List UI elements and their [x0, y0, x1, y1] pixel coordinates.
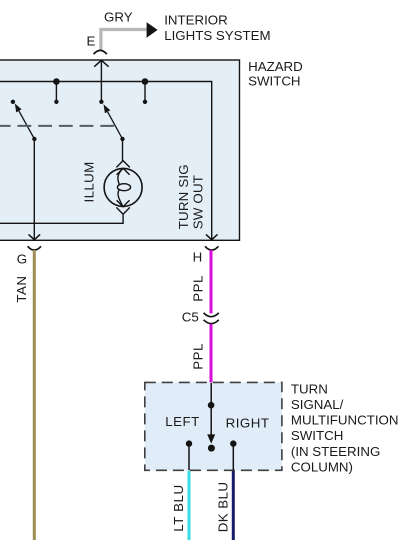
svg-text:SWITCH: SWITCH — [248, 74, 300, 89]
svg-text:SW OUT: SW OUT — [191, 175, 206, 229]
turn signal/multifunction switch box — [145, 382, 282, 470]
arrow down at G inside box — [29, 234, 41, 239]
switch blade left — [19, 111, 35, 139]
svg-text:TURN: TURN — [291, 381, 328, 396]
left contact dot and stub — [186, 440, 192, 446]
stub wire — [55, 82, 57, 102]
contact dots — [11, 100, 15, 104]
svg-text:ILLUM: ILLUM — [81, 161, 96, 202]
svg-text:SIGNAL/: SIGNAL/ — [291, 397, 344, 412]
connector E arc — [94, 50, 107, 54]
svg-text:LEFT: LEFT — [165, 414, 200, 429]
bus wire with turn sig sw out drop — [0, 82, 212, 240]
svg-text:PPL: PPL — [190, 343, 205, 370]
wire GRY to interior lights — [101, 30, 147, 52]
stub wire — [144, 82, 146, 102]
svg-text:HAZARD: HAZARD — [248, 59, 303, 74]
common contact dot — [208, 445, 215, 452]
wire to G — [33, 139, 35, 239]
svg-text:LT BLU: LT BLU — [171, 484, 186, 531]
svg-text:C5: C5 — [182, 310, 199, 325]
svg-text:H: H — [193, 250, 203, 265]
svg-text:GRY: GRY — [104, 10, 133, 25]
pole wire inside multifunction switch — [210, 383, 212, 435]
connector H arc — [205, 246, 218, 250]
svg-text:PPL: PPL — [190, 275, 205, 302]
wire from center blade to lamp — [122, 139, 124, 161]
svg-text:(IN STEERING: (IN STEERING — [291, 444, 380, 459]
wire LT BLU — [188, 471, 191, 540]
wire PPL upper — [210, 250, 213, 313]
svg-text:MULTIFUNCTION: MULTIFUNCTION — [291, 413, 399, 428]
junction dot on bus — [53, 78, 60, 85]
lamp ILLUM — [104, 168, 142, 206]
junction dot on bus — [142, 78, 149, 85]
arrow up at E inside box — [94, 60, 108, 66]
svg-text:E: E — [87, 34, 96, 49]
svg-text:COLUMN): COLUMN) — [291, 459, 353, 474]
svg-text:TAN: TAN — [14, 275, 29, 302]
mechanical link dashed line — [0, 125, 114, 127]
wire TAN — [33, 250, 36, 540]
junction dot — [208, 402, 215, 409]
svg-text:SWITCH: SWITCH — [291, 428, 343, 443]
svg-text:INTERIOR: INTERIOR — [164, 13, 228, 28]
svg-text:RIGHT: RIGHT — [226, 416, 270, 431]
arrow down at H inside box — [206, 234, 218, 239]
wire DK BLU — [232, 471, 235, 540]
svg-text:DK BLU: DK BLU — [215, 482, 230, 533]
connector G arc — [28, 246, 41, 250]
connector C5 arcs — [204, 313, 219, 317]
hazard switch box — [0, 60, 240, 240]
svg-text:LIGHTS SYSTEM: LIGHTS SYSTEM — [164, 28, 270, 43]
switch blade center — [108, 112, 123, 139]
wire PPL lower — [210, 324, 213, 382]
pole arrow down — [207, 434, 215, 443]
wire from E arrow to contact — [100, 60, 102, 102]
svg-text:G: G — [17, 251, 27, 266]
lamp return wire — [0, 214, 123, 223]
right contact dot and stub — [230, 440, 236, 446]
svg-text:TURN SIG: TURN SIG — [176, 164, 191, 229]
arrow to interior lights system — [147, 22, 158, 38]
